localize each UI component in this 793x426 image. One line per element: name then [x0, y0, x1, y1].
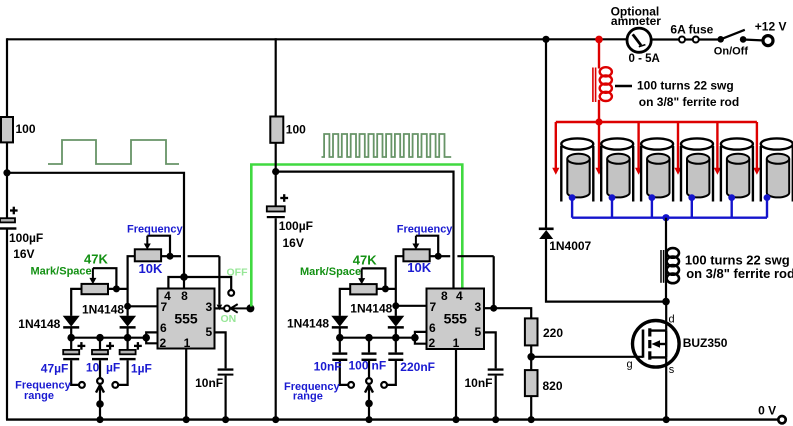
svg-text:10K: 10K	[407, 260, 431, 275]
svg-text:1N4148: 1N4148	[82, 303, 124, 317]
label 100 turns 22 swg (L2)	[685, 253, 790, 268]
node top rail junction	[542, 36, 549, 43]
label pin 3 (U1)	[205, 300, 212, 314]
svg-text:d: d	[669, 314, 675, 326]
wire gate	[531, 356, 643, 358]
wire timing bus 555-1	[71, 337, 146, 339]
capacitor C10nF (U2 pin5)	[484, 332, 504, 419]
node selector 555-1	[96, 400, 104, 423]
label pin 6 (U2)	[429, 321, 436, 335]
selector arrow 555-1	[96, 385, 104, 420]
label BUZ350	[683, 336, 728, 350]
terminal +12V	[763, 36, 773, 46]
label 10nF (t)	[314, 360, 342, 374]
label 47K (555-1)	[84, 252, 108, 267]
node VR2 wiper junction	[113, 285, 120, 292]
svg-text:100µF: 100µF	[279, 219, 313, 233]
terminal circle 10uF	[97, 378, 103, 384]
svg-text:6A fuse: 6A fuse	[670, 23, 713, 37]
label 100 turns 22 swg (L1)	[637, 79, 734, 93]
meter AM1 ammeter	[627, 28, 651, 52]
label 6A fuse	[670, 23, 713, 37]
node 820 ground	[528, 416, 535, 423]
transistor Q1 channel	[648, 328, 651, 359]
switch pole circle ON	[224, 306, 230, 312]
label s (Q1)	[669, 364, 675, 376]
capacitor C220nF	[387, 338, 403, 385]
potentiometer VR2 wiper	[89, 268, 116, 289]
svg-text:on 3/8" ferrite rod: on 3/8" ferrite rod	[686, 266, 793, 281]
wire pin 3 output (U1)	[215, 307, 225, 309]
svg-text:10: 10	[86, 361, 100, 375]
transistor Q1 drain tap	[650, 331, 666, 358]
svg-text:Frequency: Frequency	[397, 224, 454, 236]
svg-text:100: 100	[349, 359, 369, 373]
label 555 (U1)	[174, 311, 198, 327]
wire C-mid to ground	[275, 218, 277, 419]
wire R-mid top	[275, 38, 277, 117]
svg-text:µF: µF	[106, 361, 120, 375]
node timing bus dots 555-2	[336, 334, 419, 342]
label 1N4148 (D2)	[82, 303, 124, 317]
potentiometer VR4 47K body	[350, 284, 377, 294]
node selector 555-2	[365, 400, 373, 424]
potentiometer VR2 47K body	[82, 284, 109, 294]
label on 3/8 ferrite rod (L1)	[639, 95, 739, 109]
label Optional	[611, 4, 660, 18]
label Mark/Space (555-1)	[31, 266, 92, 278]
label pin 8 (U2)	[441, 289, 448, 303]
label 1N4148 (D4)	[350, 301, 392, 315]
wire VR1 output with hop	[161, 256, 219, 304]
svg-text:47µF: 47µF	[41, 362, 69, 376]
node gate junction	[527, 353, 535, 361]
label 820	[543, 379, 563, 393]
svg-text:555: 555	[174, 311, 198, 327]
label 16V (C-left)	[13, 247, 34, 261]
label pin 2 (U2)	[429, 336, 436, 350]
wire VR1 left terminal	[128, 256, 135, 306]
wire mid supply to 555-2	[276, 172, 454, 289]
svg-text:range: range	[24, 390, 54, 402]
svg-text:100: 100	[286, 123, 306, 137]
node drain junction	[662, 298, 670, 306]
label Mark/Space (555-2)	[300, 266, 361, 278]
label OFF	[227, 267, 249, 279]
inductor L1 primary coil red	[593, 39, 612, 122]
node VR3 right terminal	[435, 253, 442, 260]
svg-text:2: 2	[429, 336, 436, 350]
wire VR4 right to diode column	[377, 288, 396, 290]
capacitor C100nF	[362, 338, 377, 378]
wire VR3 output with hop	[430, 256, 494, 308]
svg-text:Mark/Space: Mark/Space	[300, 266, 361, 278]
wire drain	[665, 302, 667, 331]
label pin 1 (U2)	[453, 336, 460, 350]
diode D3 1N4148	[331, 316, 348, 338]
wire left rail x=7	[6, 38, 8, 419]
label + (C47uF)	[78, 342, 86, 350]
terminal 0V	[778, 416, 785, 423]
svg-text:10nF: 10nF	[465, 376, 493, 390]
svg-text:3: 3	[205, 300, 212, 314]
arrow into pin3 wire	[217, 305, 223, 311]
label + (C-left)	[10, 207, 18, 215]
label 100 (R-mid)	[286, 123, 306, 137]
label pin 5 (U2)	[475, 325, 482, 339]
wire blue electrode links	[569, 194, 771, 217]
svg-text:Frequency: Frequency	[127, 223, 184, 235]
svg-text:ON: ON	[221, 313, 237, 325]
label ON	[221, 313, 237, 325]
node blue bus junction	[662, 214, 669, 221]
label 10K (555-1)	[139, 261, 163, 276]
svg-text:1: 1	[453, 336, 460, 350]
label 100uF (C-left)	[9, 231, 43, 245]
wire pin6-pin2 bracket 555-1	[146, 332, 157, 343]
svg-text:+12 V: +12 V	[755, 19, 787, 33]
label pin 2 (U1)	[159, 336, 166, 350]
node VR1 right terminal	[167, 253, 174, 260]
wire red bus	[556, 121, 757, 123]
potentiometer VR3 wiper	[412, 236, 438, 257]
cell bank electrolyser tubes	[561, 138, 793, 201]
terminal circle 220nF	[381, 382, 387, 388]
svg-text:1N4007: 1N4007	[549, 239, 591, 253]
wire to pin 8 (555-1)	[183, 277, 185, 290]
svg-text:100: 100	[16, 122, 36, 136]
label 220	[543, 326, 563, 340]
wire R-mid to cap	[275, 142, 277, 206]
label 47K (555-2)	[353, 253, 377, 268]
label 10nF (U2)	[465, 376, 493, 390]
waveform pulse train	[322, 134, 452, 157]
label Frequency (555-1)	[127, 223, 184, 235]
svg-text:555: 555	[444, 311, 468, 327]
potentiometer VR4 wiper	[358, 268, 385, 289]
svg-text:1N4148: 1N4148	[287, 317, 329, 331]
transistor Q1 body arrow	[652, 340, 667, 348]
label on 3/8 ferrite rod (L2)	[686, 266, 793, 281]
node VR4 wiper junction	[382, 285, 389, 292]
wire label dash L1	[615, 85, 632, 87]
wire cells feed down	[545, 39, 547, 229]
svg-text:Mark/Space: Mark/Space	[31, 266, 92, 278]
label pin 5 (U1)	[205, 325, 212, 339]
svg-text:16V: 16V	[283, 236, 304, 250]
svg-text:8: 8	[441, 289, 448, 303]
svg-text:2: 2	[159, 336, 166, 350]
wire timing bus 555-2	[340, 337, 415, 339]
svg-text:8: 8	[181, 289, 188, 303]
label 220nF	[400, 360, 435, 374]
transistor Q1 source tap	[650, 356, 666, 358]
node timing bus dots 555-1	[67, 334, 150, 342]
wire red electrode drops	[552, 122, 760, 175]
label 1N4007	[549, 239, 591, 253]
label 100 nF	[349, 359, 387, 373]
label 0 - 5A	[629, 53, 660, 65]
op-amp U1 555 body	[158, 289, 215, 349]
label pin 7 (U1)	[160, 300, 167, 314]
svg-text:10K: 10K	[139, 261, 163, 276]
node pin3 junction (U2)	[490, 305, 497, 312]
node rail-junction left	[3, 169, 10, 176]
switch OFF contact circle	[228, 290, 234, 296]
label 1N4148 (D3)	[287, 317, 329, 331]
label +12 V	[755, 19, 787, 33]
svg-text:820: 820	[543, 379, 563, 393]
label 1uF	[131, 362, 152, 376]
wire to OFF contact	[184, 277, 231, 290]
transistor Q1 BUZ350 circle	[633, 321, 680, 368]
label pin 4 (U1)	[164, 289, 171, 303]
label Frequency range (555-2)	[284, 381, 341, 402]
wire pin3 to gate divider	[494, 308, 532, 318]
svg-text:10nF: 10nF	[314, 360, 342, 374]
svg-text:4: 4	[456, 289, 463, 303]
diode D2 1N4148	[119, 306, 136, 337]
capacitor C-mid 100uF	[267, 206, 285, 218]
node C-mid ground	[272, 416, 279, 423]
label 47uF	[41, 362, 69, 376]
svg-text:16V: 16V	[13, 247, 34, 261]
wire 220-820 link	[530, 345, 532, 370]
potentiometer VR1 wiper	[144, 236, 170, 257]
label 100uF (C-mid)	[279, 219, 313, 233]
wire top +12V rail	[7, 39, 762, 40]
svg-text:47K: 47K	[84, 252, 108, 267]
svg-text:on 3/8" ferrite rod: on 3/8" ferrite rod	[639, 95, 739, 109]
label d (Q1)	[669, 314, 675, 326]
wire pin 1 ground (U1)	[185, 349, 187, 420]
svg-text:6: 6	[429, 321, 436, 335]
label 555 (U2)	[444, 311, 468, 327]
wire VR3 left terminal	[396, 256, 404, 306]
svg-text:On/Off: On/Off	[714, 46, 749, 58]
svg-text:7: 7	[160, 300, 167, 314]
svg-text:1: 1	[184, 336, 191, 350]
node pin1 ground (U2)	[453, 416, 460, 423]
node red bus junction	[595, 118, 602, 125]
label Frequency (555-2)	[397, 224, 454, 236]
op-amp U2 555 body	[427, 289, 485, 350]
svg-text:10nF: 10nF	[195, 376, 223, 390]
wire VR4 left terminal	[340, 289, 350, 316]
waveform square wave	[48, 140, 179, 164]
svg-text:0 - 5A: 0 - 5A	[629, 53, 660, 65]
wire diode to drain node	[546, 239, 666, 302]
svg-text:220nF: 220nF	[400, 360, 435, 374]
switch S1 On/Off	[717, 30, 746, 43]
wire to pin 7 (555-1)	[128, 305, 158, 307]
label + (C-mid)	[280, 194, 288, 202]
label 1N4148 (D1)	[18, 317, 60, 331]
svg-text:5: 5	[475, 325, 482, 339]
node source ground	[663, 416, 670, 423]
transistor Q1 gate plate	[642, 330, 645, 358]
capacitor C10nF (U1 pin5)	[215, 332, 234, 419]
svg-text:1µF: 1µF	[131, 362, 152, 376]
label 100 (R-left)	[16, 122, 36, 136]
terminal circle 47uF	[79, 382, 85, 388]
terminal circle 10nF-t	[348, 382, 354, 388]
label pin 7 (U2)	[429, 300, 436, 314]
wire VR2 right to diode column	[108, 288, 128, 290]
node pin5 cap ground (U1)	[222, 416, 229, 423]
resistor R-left 100	[1, 117, 13, 142]
svg-text:100 turns 22 swg: 100 turns 22 swg	[637, 79, 734, 93]
node diode junction 555-2 pin7	[392, 302, 399, 309]
node red coil junction	[595, 36, 603, 44]
fuse F1 6A	[679, 37, 699, 43]
switch lever arrow	[231, 304, 248, 313]
label 10K (555-2)	[407, 260, 431, 275]
label pin 1 (U1)	[184, 336, 191, 350]
capacitor C-left 100uF	[0, 218, 16, 230]
svg-text:100µF: 100µF	[9, 231, 43, 245]
node supply junction 555-1	[180, 273, 188, 281]
wire green link 555-1 to 555-2	[251, 165, 462, 307]
label pin 6 (U1)	[160, 321, 167, 335]
wire to pin 4 (555-1)	[168, 277, 184, 290]
label ammeter	[611, 14, 661, 28]
wire source to 0V	[665, 357, 667, 419]
diode D4 1N4148	[387, 306, 404, 338]
wire pin6-pin2 bracket 555-2	[415, 332, 427, 344]
wire to pin 7 (555-2)	[396, 305, 427, 307]
resistor R220 220	[525, 318, 538, 345]
wire left junction to 555-1 supply	[7, 173, 184, 277]
svg-text:220: 220	[543, 326, 563, 340]
svg-text:OFF: OFF	[227, 267, 249, 279]
node mid junction	[272, 168, 279, 175]
terminal circle 1uF	[112, 382, 118, 388]
label + (C1uF)	[134, 342, 142, 350]
svg-text:6: 6	[160, 321, 167, 335]
svg-text:nF: nF	[372, 359, 387, 373]
node pin1 ground (U1)	[183, 416, 190, 423]
label g (Q1)	[627, 359, 633, 371]
diode D5 1N4007	[539, 229, 554, 239]
wire pin 3 output (U2)	[484, 307, 494, 309]
label Frequency range (555-1)	[15, 380, 72, 402]
label 10 uF	[86, 361, 120, 375]
svg-text:0 V: 0 V	[758, 404, 776, 418]
label On/Off	[714, 46, 749, 58]
wire blue bus	[572, 216, 767, 218]
wire bottom 0V rail	[6, 418, 778, 420]
diode D1 1N4148	[63, 316, 80, 338]
svg-text:g: g	[627, 359, 633, 371]
node diode junction 555-1 pin7	[124, 303, 131, 310]
svg-text:3: 3	[475, 300, 482, 314]
svg-text:7: 7	[429, 300, 436, 314]
svg-text:range: range	[293, 390, 323, 402]
capacitor C1uF	[118, 338, 135, 385]
wire VR2 left terminal	[71, 289, 81, 316]
label 0 V	[758, 404, 776, 418]
wire blue bus to coil	[665, 218, 667, 302]
selector arrow 555-2	[365, 385, 373, 420]
label 10nF (U1)	[195, 376, 223, 390]
resistor R820 820	[525, 370, 538, 396]
capacitor C10nF-t	[332, 338, 348, 385]
svg-text:s: s	[669, 364, 675, 376]
svg-text:1N4148: 1N4148	[350, 301, 392, 315]
wire pin 1 ground (U2)	[455, 349, 457, 420]
terminal circle 100nF	[366, 378, 372, 384]
inductor L2 secondary coil	[661, 248, 679, 283]
label pin 4 (U2)	[456, 289, 463, 303]
potentiometer VR3 10K body	[403, 249, 429, 261]
wire 820 to ground	[530, 396, 532, 420]
capacitor C10uF	[92, 338, 108, 378]
node ON junction	[246, 304, 254, 312]
svg-text:1N4148: 1N4148	[18, 317, 60, 331]
svg-text:BUZ350: BUZ350	[683, 336, 728, 350]
label pin 3 (U2)	[475, 300, 482, 314]
label pin 8 (U1)	[181, 289, 188, 303]
potentiometer VR1 10K body	[135, 249, 161, 261]
svg-text:ammeter: ammeter	[611, 14, 661, 28]
node pin5 cap ground (U2)	[492, 416, 499, 423]
svg-text:5: 5	[205, 325, 212, 339]
resistor R-mid 100	[270, 117, 283, 143]
label 16V (C-mid)	[283, 236, 304, 250]
label + (C10uF)	[106, 342, 114, 350]
capacitor C47uF	[63, 338, 79, 385]
